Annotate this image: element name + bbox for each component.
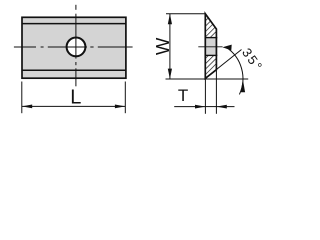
angle dimension ray (extension of bottom bevel edge)	[205, 50, 241, 79]
svg-text:L: L	[70, 87, 81, 109]
section body with hatching (side view)	[205, 14, 216, 79]
horizontal centerline	[14, 46, 133, 48]
bottom chamfer edge line	[22, 69, 126, 71]
mounting hole	[67, 38, 86, 57]
side view horizontal centerline	[198, 46, 222, 48]
W dimension bottom arrowhead	[168, 69, 172, 79]
hole band bottom line	[205, 54, 218, 56]
svg-text:T: T	[178, 86, 188, 105]
T dimension right extension line	[215, 71, 217, 114]
L dimension left extension line	[21, 82, 23, 114]
hole band top line	[205, 37, 218, 39]
W dimension line	[169, 14, 171, 79]
L dimension right extension line	[124, 82, 126, 114]
T dimension line middle part	[205, 106, 216, 108]
L dimension line	[22, 105, 126, 107]
section outline (beveled strip)	[205, 14, 216, 79]
vertical centerline	[75, 5, 77, 87]
T dimension left arrowhead (pointing right)	[195, 105, 205, 109]
L dimension left arrowhead	[22, 105, 32, 109]
angle dimension arc	[226, 47, 243, 94]
angle dimension lower arrowhead	[241, 80, 245, 93]
T dimension line right part	[216, 106, 234, 108]
T dimension left extension line	[204, 80, 206, 114]
top chamfer edge line	[22, 23, 126, 25]
W dimension top arrowhead	[168, 14, 172, 24]
angle dimension upper arrowhead	[222, 45, 231, 51]
W dimension bottom extension line (also horizontal ray of angle dimension)	[166, 78, 249, 80]
svg-text:W: W	[152, 37, 173, 55]
T dimension line left part	[174, 106, 205, 108]
insert body (front view, grey plate)	[22, 17, 126, 78]
T dimension right arrowhead (pointing left)	[216, 105, 226, 109]
hole band grey fill (hole seen in section)	[205, 38, 218, 56]
W dimension top extension line	[166, 13, 205, 15]
L dimension right arrowhead	[115, 105, 125, 109]
